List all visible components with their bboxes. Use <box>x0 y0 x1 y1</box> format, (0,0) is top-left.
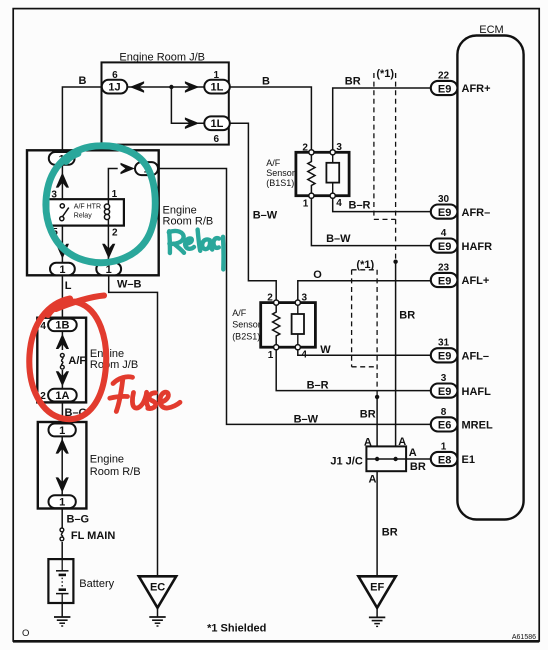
node J/C dot A (drain1) <box>393 457 397 461</box>
svg-text:E8: E8 <box>438 454 451 466</box>
svg-text:3: 3 <box>51 190 57 201</box>
B2S1 pin 3 <box>295 292 307 305</box>
wire fuse to 1A <box>61 370 63 389</box>
svg-text:B–R: B–R <box>349 200 371 212</box>
connector oval R/B top pin1 <box>49 152 75 165</box>
ECM pin AFL+ E9 <box>431 262 490 287</box>
wire B from 1J to Engine Room R/B <box>62 87 101 152</box>
svg-text:BR: BR <box>360 408 376 420</box>
svg-text:4: 4 <box>336 198 342 209</box>
wire W B2S1 pin4 to AFL- <box>298 350 432 356</box>
relay switch contact <box>60 204 69 221</box>
svg-text:1L: 1L <box>210 82 223 94</box>
node shield2 drain junction <box>375 395 379 399</box>
svg-text:AFR+: AFR+ <box>462 83 491 95</box>
ECM pin HAFL E9 <box>431 373 491 398</box>
svg-text:O: O <box>22 628 29 639</box>
svg-text:BR: BR <box>382 526 398 538</box>
wire B-G lower R/B to FL MAIN <box>61 508 63 527</box>
svg-text:E9: E9 <box>438 241 451 253</box>
svg-text:A: A <box>409 447 417 459</box>
svg-text:2: 2 <box>267 293 273 304</box>
wire shield2 drain to J/C <box>376 397 378 447</box>
ECM pin AFR+ E9 <box>431 70 491 95</box>
svg-text:31: 31 <box>438 338 450 349</box>
arrow down above 1A <box>56 371 69 386</box>
junction block J1 J/C <box>330 446 406 471</box>
wire L from R/B to fuse 1B <box>61 275 63 318</box>
annotation red circle around fuse <box>29 296 106 420</box>
svg-text:B–R: B–R <box>307 379 329 391</box>
svg-text:30: 30 <box>438 194 450 205</box>
wire EC apex to ground <box>157 608 159 617</box>
wire shield1 drain to J/C <box>395 262 397 447</box>
ECM pin HAFR E9 <box>431 228 492 253</box>
svg-text:HAFL: HAFL <box>462 386 492 398</box>
B2S1 pin 4 <box>295 345 307 361</box>
svg-text:O: O <box>313 269 322 281</box>
wire O B2S1 pin3 to AFL+ <box>298 281 432 300</box>
ground EF triangle <box>358 576 395 608</box>
B1S1 sensing resistor <box>308 155 315 193</box>
svg-text:1B: 1B <box>55 320 69 332</box>
svg-text:A/F HTR: A/F HTR <box>74 203 101 210</box>
svg-text:ECM: ECM <box>479 24 503 36</box>
fuse A/F symbol <box>60 353 64 369</box>
svg-text:6: 6 <box>214 134 220 145</box>
ECM pin E1 E8 <box>431 441 475 466</box>
svg-text:22: 22 <box>438 70 450 81</box>
ECM pin AFL- E9 <box>431 338 489 363</box>
wire junction down to 1L(6) <box>171 87 204 123</box>
wire J/C to E1 <box>406 458 432 460</box>
wire MREL from R/B oval to E6 <box>158 169 432 425</box>
A/F Sensor B2S1 box <box>232 303 315 348</box>
svg-text:B–W: B–W <box>294 413 319 425</box>
wire BR B1S1 pin3 to AFR+ <box>333 88 432 150</box>
wire inside lower R/B <box>61 436 63 495</box>
svg-text:1: 1 <box>303 198 309 209</box>
B1S1 pin 2 <box>302 142 314 155</box>
svg-text:2: 2 <box>302 142 308 153</box>
node shield1 drain junction <box>393 260 397 264</box>
annotation teal Relay text <box>169 230 224 270</box>
svg-text:(B1S1): (B1S1) <box>266 178 294 188</box>
svg-text:B–W: B–W <box>326 233 351 245</box>
annotation teal circle around relay <box>46 146 155 263</box>
ground below EC <box>149 617 165 626</box>
svg-text:8: 8 <box>441 407 447 418</box>
svg-text:Engine Room J/B: Engine Room J/B <box>119 51 205 63</box>
ground below battery <box>54 617 70 626</box>
svg-text:(*1): (*1) <box>356 259 374 271</box>
wire EF apex to ground <box>376 608 378 618</box>
svg-text:Room R/B: Room R/B <box>163 216 214 228</box>
node junction dot top J/B <box>169 85 173 89</box>
connector oval lower R/B top <box>49 424 76 437</box>
connector 1L pin1 <box>204 70 230 94</box>
B1S1 pin 4 <box>330 193 342 209</box>
arrow down pin5 <box>56 244 69 259</box>
relay coil <box>104 199 109 225</box>
wire J/C to EF ground <box>376 471 378 576</box>
svg-text:AFR–: AFR– <box>462 207 491 219</box>
arrow into R/B right oval <box>121 163 135 175</box>
svg-text:4: 4 <box>441 228 447 239</box>
node J/C dot A (drain2) <box>375 457 379 461</box>
svg-text:Room J/B: Room J/B <box>90 359 138 371</box>
fusible link FL MAIN <box>60 528 64 541</box>
arrow down pin2 <box>102 244 115 259</box>
B2S1 pin 1 <box>268 345 279 361</box>
wire from 1L(6) to A/F sensor B2S1 pin2 <box>230 123 276 302</box>
svg-text:(*1): (*1) <box>376 68 394 80</box>
svg-text:BR: BR <box>399 310 415 322</box>
svg-text:E9: E9 <box>438 386 451 398</box>
svg-text:BR: BR <box>410 461 426 473</box>
svg-text:1: 1 <box>441 441 447 452</box>
svg-text:1: 1 <box>214 70 220 81</box>
annotation red Fuse text <box>110 377 180 412</box>
arrow up to R/B top oval <box>56 172 69 187</box>
svg-text:B–W: B–W <box>253 209 278 221</box>
svg-text:E9: E9 <box>438 83 451 95</box>
wire W-B from R/B to EC <box>109 275 158 576</box>
wire battery to ground <box>61 603 63 617</box>
svg-text:HAFR: HAFR <box>462 241 493 253</box>
connector 1J <box>102 70 128 94</box>
svg-text:1A: 1A <box>55 390 69 402</box>
Engine Room J/B box (fuse) <box>37 318 138 403</box>
A/F Sensor B1S1 box <box>266 152 349 195</box>
shield dashed box B2S1 (*1) <box>352 270 378 397</box>
battery <box>48 559 114 603</box>
svg-text:3: 3 <box>302 292 308 303</box>
svg-text:A/F: A/F <box>232 308 247 318</box>
connector 1L pin6 <box>204 116 230 145</box>
shield dashed box B1S1 (*1) <box>374 73 396 262</box>
wire relay pin2 down to bottom oval <box>107 226 109 263</box>
relay A/F HTR box <box>48 199 124 225</box>
svg-text:J1 J/C: J1 J/C <box>330 455 362 467</box>
svg-text:E9: E9 <box>438 207 451 219</box>
svg-text:Engine: Engine <box>90 454 124 466</box>
svg-text:Relay: Relay <box>74 212 92 219</box>
wire relay pin1 to R/B right oval to MREL column <box>108 169 117 200</box>
svg-text:1: 1 <box>59 264 65 276</box>
ground below EF <box>369 617 385 626</box>
svg-text:*1 Shielded: *1 Shielded <box>207 622 266 634</box>
wire 1B to fuse <box>61 331 63 350</box>
svg-text:B: B <box>79 75 87 87</box>
Engine Room R/B box (relay) <box>27 150 213 275</box>
svg-text:3: 3 <box>441 373 447 384</box>
svg-text:1: 1 <box>268 350 274 361</box>
svg-text:B: B <box>262 76 270 88</box>
connector 1A <box>40 389 76 402</box>
connector 1B <box>40 319 76 332</box>
svg-text:EC: EC <box>150 581 165 593</box>
svg-text:1: 1 <box>59 425 65 437</box>
svg-text:W–B: W–B <box>117 279 142 291</box>
svg-text:AFL+: AFL+ <box>462 275 490 287</box>
ECM pin MREL E6 <box>431 407 493 432</box>
svg-text:A: A <box>398 436 406 448</box>
B1S1 pin 3 <box>330 142 342 155</box>
svg-text:1: 1 <box>112 189 118 200</box>
svg-text:L: L <box>65 280 72 292</box>
svg-text:W: W <box>320 344 331 356</box>
svg-text:1L: 1L <box>210 118 223 130</box>
Engine Room R/B box (lower) <box>38 422 141 509</box>
svg-text:23: 23 <box>438 262 450 273</box>
wire B-R B1S1 pin4 to AFR- <box>333 198 432 211</box>
wire oval to relay pin3 <box>61 165 63 199</box>
svg-text:MREL: MREL <box>462 420 493 432</box>
svg-text:3: 3 <box>336 142 342 153</box>
svg-text:A: A <box>364 436 372 448</box>
arrow up lower R/B <box>56 438 69 453</box>
Engine Room J/B box (top) <box>102 51 229 144</box>
svg-text:EF: EF <box>370 581 384 593</box>
arrow into 1J <box>130 81 144 93</box>
ECM block U-ECM <box>457 24 523 519</box>
arrow up below 1B <box>56 334 69 349</box>
ground EC triangle <box>139 576 176 608</box>
svg-text:A/F: A/F <box>68 355 86 367</box>
svg-text:AFL–: AFL– <box>462 351 490 363</box>
svg-text:FL MAIN: FL MAIN <box>71 530 115 542</box>
svg-text:Engine: Engine <box>163 204 197 216</box>
svg-text:B–G: B–G <box>67 514 90 526</box>
wire B-W B1S1 pin1 to HAFR <box>311 198 431 245</box>
svg-text:A/F: A/F <box>266 158 281 168</box>
svg-text:E9: E9 <box>438 275 451 287</box>
B2S1 sensing resistor <box>273 305 280 344</box>
svg-text:E9: E9 <box>438 351 451 363</box>
wire B from 1L(1) to A/F sensor B1S1 pin2 <box>230 87 312 152</box>
connector oval R/B bottom left <box>50 263 75 276</box>
arrow into 1L(1) <box>185 81 199 93</box>
svg-text:2: 2 <box>112 228 118 239</box>
svg-text:A61586: A61586 <box>512 634 536 641</box>
svg-text:Room R/B: Room R/B <box>90 466 141 478</box>
connector oval R/B bottom right <box>96 263 121 276</box>
ECM pin AFR- E9 <box>431 194 490 219</box>
B1S1 heater element <box>326 155 339 193</box>
svg-text:A: A <box>368 473 376 485</box>
connector oval R/B right <box>135 162 158 176</box>
svg-text:1J: 1J <box>108 82 120 94</box>
connector oval lower R/B bottom <box>49 495 76 508</box>
wire B-G fuse box to lower R/B <box>61 402 63 424</box>
wire FL MAIN to battery <box>61 542 63 559</box>
svg-text:1: 1 <box>59 497 65 509</box>
svg-text:BR: BR <box>345 75 361 87</box>
wire B-R B2S1 pin1 to HAFL <box>276 350 432 391</box>
wire 1J to junction to 1L <box>127 86 204 88</box>
wire relay pin5 down to bottom oval <box>61 226 63 263</box>
B1S1 pin 1 <box>303 193 314 209</box>
B2S1 heater element <box>292 305 304 344</box>
svg-text:Battery: Battery <box>79 578 114 590</box>
arrow into 1L(6) <box>185 117 199 129</box>
svg-text:E6: E6 <box>438 420 451 432</box>
svg-text:E1: E1 <box>462 454 475 466</box>
svg-text:6: 6 <box>112 70 118 81</box>
svg-text:(B2S1): (B2S1) <box>232 331 260 341</box>
B2S1 pin 2 <box>267 293 279 306</box>
svg-text:Sensor: Sensor <box>266 168 295 178</box>
arrow down lower R/B <box>56 477 69 492</box>
svg-text:Sensor: Sensor <box>232 320 261 330</box>
